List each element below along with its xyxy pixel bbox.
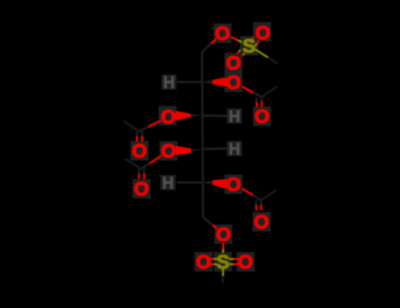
O6s-S2 bond (222, 244, 224, 250)
O4-A4 bond (149, 156, 161, 164)
svg-text:H: H (163, 74, 175, 92)
svg-text:H: H (229, 108, 241, 126)
svg-text:O: O (161, 140, 176, 162)
A2-CH3 bond (262, 87, 278, 98)
label background boxes (131, 22, 272, 272)
svg-text:O: O (196, 251, 211, 273)
C2-H bond (177, 81, 202, 83)
S2-CH3 bond (222, 269, 224, 277)
atom labels (132, 22, 270, 273)
svg-text:O: O (134, 178, 149, 200)
A5-CH3 bond (261, 190, 277, 200)
A4-CH3 bond (125, 159, 141, 170)
S1=O1b double bond (243, 53, 244, 55)
O5-A5 bond (242, 189, 253, 196)
C3-H bond (202, 114, 227, 117)
S2=O6a double bond (214, 258, 218, 260)
C1-O1s bond (202, 44, 211, 52)
A2=O2c double bond (260, 97, 262, 102)
svg-text:O: O (255, 22, 270, 44)
C5-H bond (177, 181, 202, 183)
A3-CH3 bond (124, 121, 140, 132)
S2=O6b double bond (229, 258, 234, 260)
svg-text:O: O (216, 224, 231, 246)
svg-text:O: O (215, 23, 230, 45)
C3-O3 wedge (191, 114, 203, 117)
C4-O4 wedge (191, 149, 202, 152)
O3-A3 bond (148, 121, 161, 127)
svg-text:O: O (161, 106, 176, 128)
svg-text:O: O (254, 211, 269, 233)
A5=O5c double bond (260, 200, 262, 205)
svg-text:O: O (238, 251, 253, 273)
svg-text:S: S (242, 35, 255, 57)
svg-text:S: S (216, 251, 229, 273)
O1s-S1 bond (231, 37, 238, 40)
C5-O5 wedge (202, 181, 213, 185)
svg-text:O: O (254, 106, 269, 128)
svg-text:H: H (229, 140, 241, 158)
C6-O6s bond (203, 217, 213, 225)
C4-H bond (202, 147, 227, 150)
svg-text:O: O (226, 72, 241, 94)
svg-text:O: O (226, 174, 241, 196)
S1=O1a double bond (255, 44, 257, 46)
S1-CH3 bond (255, 49, 269, 57)
A3=O3c double bond (136, 132, 138, 137)
O2-A2 bond (242, 87, 253, 93)
backbone C1-C6 (202, 52, 203, 217)
svg-text:H: H (162, 174, 174, 192)
A4=O4c double bond (138, 169, 140, 174)
svg-text:O: O (132, 140, 147, 162)
C2-O2 wedge (202, 80, 213, 84)
